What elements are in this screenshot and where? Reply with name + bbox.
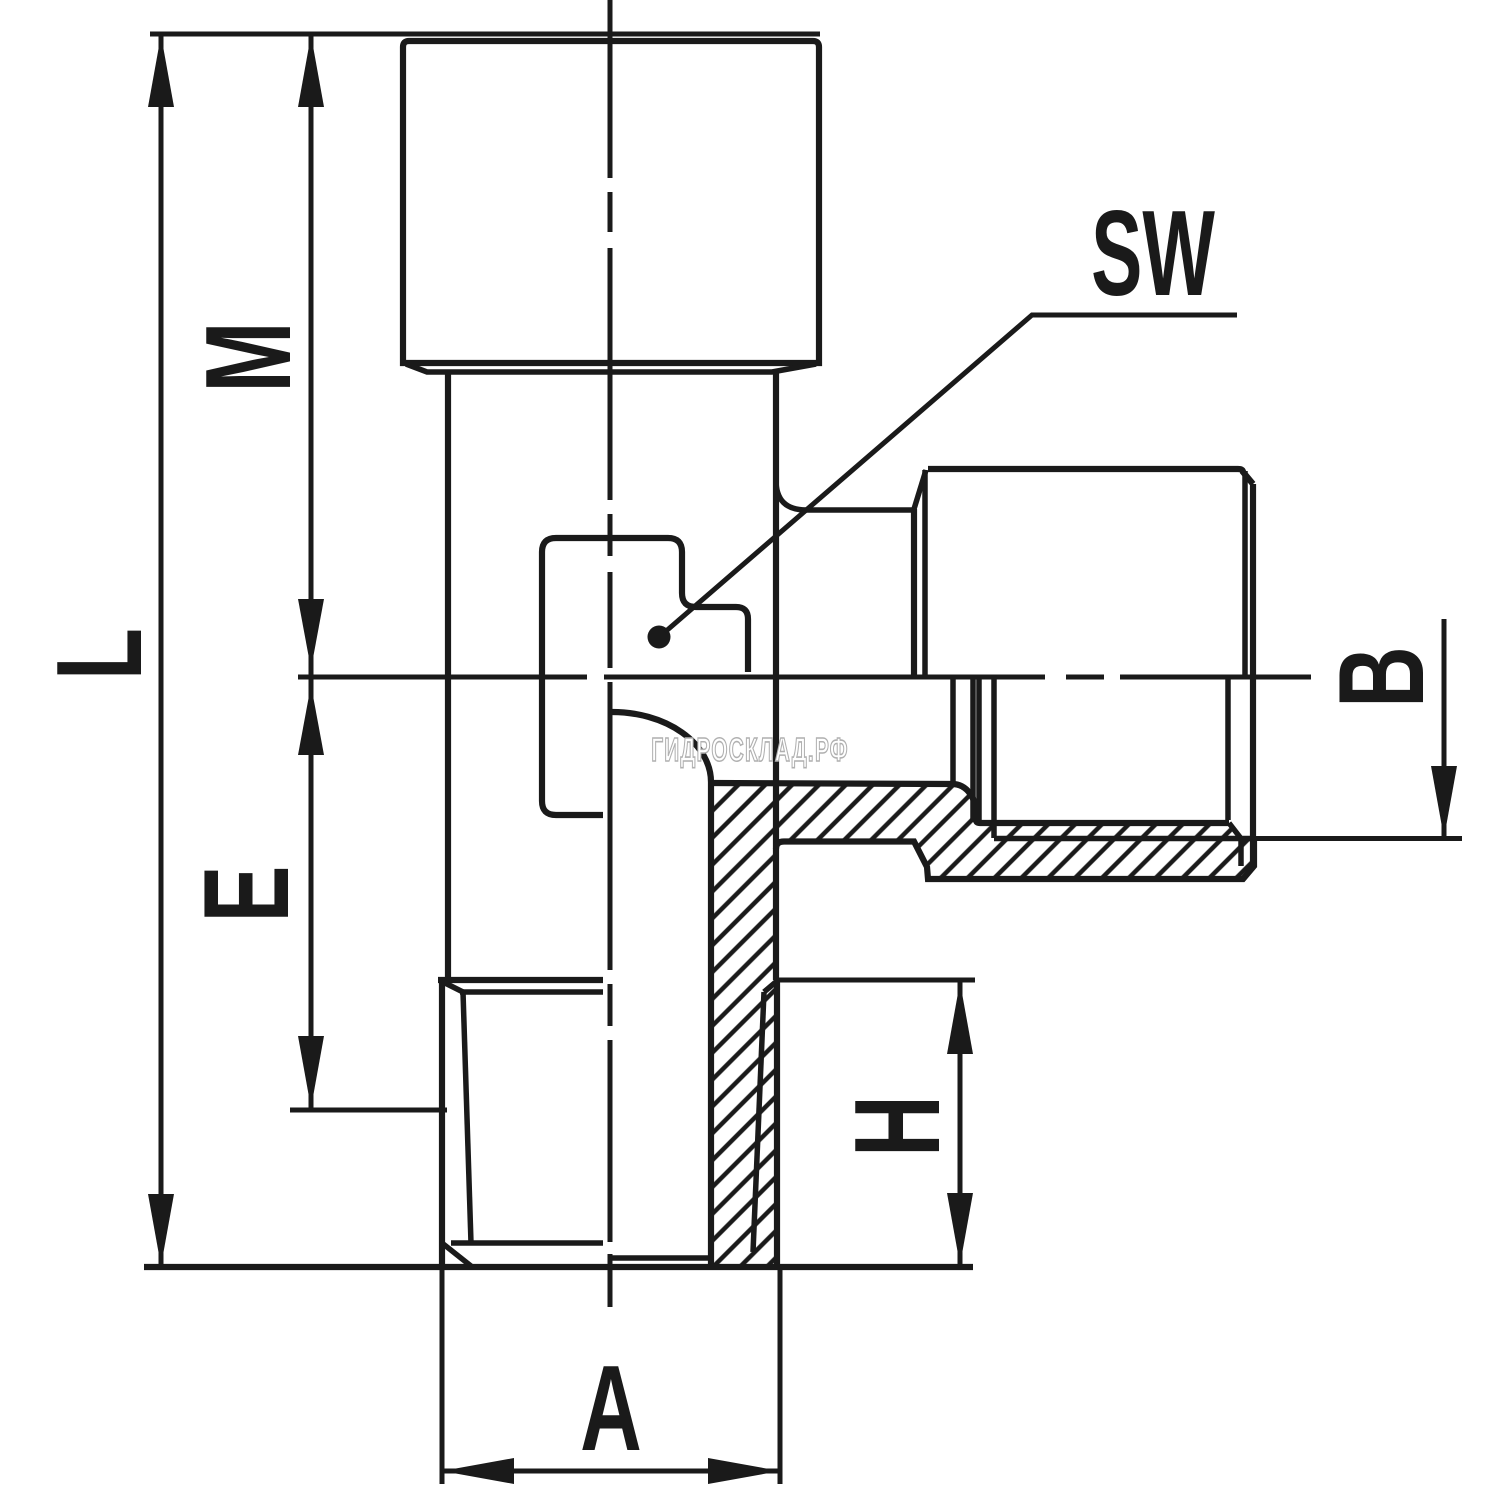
svg-text:L: L bbox=[32, 628, 168, 680]
male thread crest right bbox=[774, 980, 780, 1267]
thread end lines in bore bbox=[953, 677, 994, 838]
elbow bore arc bbox=[612, 712, 711, 782]
svg-text:H: H bbox=[830, 1095, 966, 1157]
SW leader dot bbox=[648, 626, 671, 649]
hex chamfer ring bbox=[406, 364, 816, 372]
bore chamfer line right bbox=[612, 1255, 711, 1261]
horizontal centerline bbox=[298, 675, 1311, 680]
port thread root line bbox=[1229, 823, 1254, 839]
section hatch body cut bbox=[711, 783, 1254, 1266]
wrench flats silhouette bbox=[542, 538, 748, 815]
port opening thread end bbox=[1225, 678, 1231, 820]
thread root left bbox=[463, 992, 471, 1243]
side port hex top bbox=[928, 469, 1253, 484]
end chamfer diag left bbox=[442, 1243, 471, 1266]
svg-text:ГИДРОСКЛАД.РФ: ГИДРОСКЛАД.РФ bbox=[651, 731, 849, 768]
body outer under port bbox=[776, 839, 1254, 880]
dimension A bbox=[442, 1267, 780, 1484]
body neck right edge bbox=[773, 372, 779, 980]
thread runout left bbox=[443, 982, 463, 992]
dimension H bbox=[776, 980, 975, 1267]
full thread line bbox=[460, 989, 603, 995]
side port hex left edges bbox=[911, 509, 917, 677]
end chamfer line left bbox=[451, 1240, 603, 1246]
side boss fillet bbox=[776, 480, 914, 510]
side bore line bbox=[711, 783, 1229, 823]
dimension L line bbox=[148, 35, 174, 1266]
vertical centerline bbox=[608, 0, 613, 1307]
dimension B bbox=[1253, 619, 1462, 839]
top hex block bbox=[403, 41, 819, 363]
svg-text:SW: SW bbox=[1091, 185, 1215, 321]
bore wall line bbox=[708, 782, 714, 1266]
thread runout right bbox=[764, 981, 777, 992]
shoulder line bbox=[438, 977, 603, 983]
svg-text:A: A bbox=[580, 1341, 642, 1477]
thread root right bbox=[753, 992, 764, 1252]
male thread crest left bbox=[439, 980, 445, 1267]
E extension line bbox=[290, 1108, 447, 1113]
SW leader line bbox=[665, 315, 1237, 632]
dimension M line bbox=[298, 35, 324, 676]
side port hex left chamfer bbox=[914, 470, 926, 509]
bottom face bbox=[144, 1264, 973, 1270]
top extension line bbox=[150, 32, 820, 37]
side port hex right edges bbox=[1242, 471, 1248, 677]
body neck left edge bbox=[445, 372, 451, 980]
dimension E line bbox=[298, 678, 324, 1108]
svg-text:M: M bbox=[181, 321, 317, 392]
svg-text:B: B bbox=[1314, 646, 1450, 708]
svg-text:E: E bbox=[179, 866, 315, 923]
